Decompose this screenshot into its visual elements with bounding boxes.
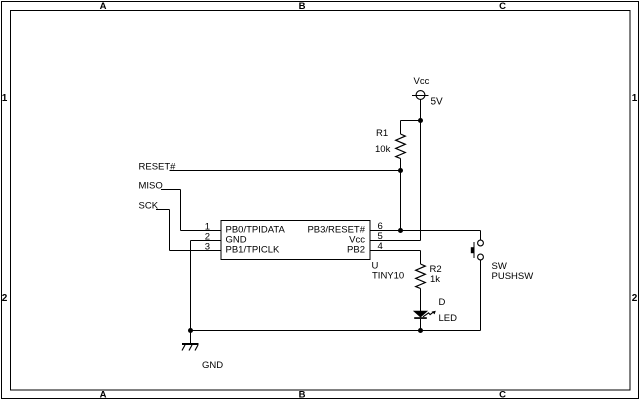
LED D <box>414 311 436 331</box>
resistor R1 <box>396 121 406 171</box>
svg-text:3: 3 <box>205 242 210 253</box>
wire pin 5 to Vcc <box>370 121 421 241</box>
wire RESET# down to pin 6 <box>400 171 402 231</box>
wire MISO to pin 1 <box>161 190 221 231</box>
svg-text:5V: 5V <box>431 97 444 108</box>
svg-text:1: 1 <box>632 93 638 104</box>
junction GND rail left <box>188 328 193 333</box>
svg-text:C: C <box>499 390 506 400</box>
svg-text:A: A <box>100 390 107 400</box>
junction R1 bottom / RESET# <box>398 168 403 173</box>
svg-text:1: 1 <box>2 93 8 104</box>
svg-text:D: D <box>439 297 446 308</box>
svg-text:PB1/TPICLK: PB1/TPICLK <box>226 245 281 256</box>
junction pin 6 / RESET# <box>398 228 403 233</box>
svg-text:GND: GND <box>202 360 223 371</box>
resistor R2 <box>416 264 426 311</box>
svg-text:RESET#: RESET# <box>139 162 177 173</box>
svg-text:B: B <box>299 1 306 12</box>
svg-text:B: B <box>299 390 306 400</box>
wire RESET# net horizontal <box>170 170 401 172</box>
svg-text:2: 2 <box>632 293 638 304</box>
svg-text:10k: 10k <box>375 144 391 155</box>
junction LED bottom <box>418 328 423 333</box>
wire pin 4 to R2 <box>370 251 421 265</box>
svg-text:PB2: PB2 <box>347 245 365 256</box>
svg-text:TINY10: TINY10 <box>372 271 404 282</box>
wire SCK to pin 3 <box>156 210 221 251</box>
svg-text:MISO: MISO <box>139 181 163 192</box>
IC U TINY10 body <box>221 221 370 260</box>
ground symbol <box>182 344 199 351</box>
svg-text:C: C <box>499 1 506 12</box>
svg-text:LED: LED <box>439 313 458 324</box>
wire pin 6 to switch <box>370 230 481 232</box>
svg-text:A: A <box>100 1 107 12</box>
svg-text:2: 2 <box>2 293 8 304</box>
svg-text:R1: R1 <box>376 128 388 139</box>
power symbol Vcc 5V <box>412 91 429 121</box>
svg-text:PUSHSW: PUSHSW <box>492 271 534 282</box>
svg-text:1k: 1k <box>430 274 440 285</box>
junction Vcc node <box>418 118 423 123</box>
svg-text:Vcc: Vcc <box>414 76 430 87</box>
wire pin 2 GND branch <box>191 241 222 344</box>
switch SW PUSHSW <box>471 231 484 331</box>
svg-text:SCK: SCK <box>139 201 159 212</box>
wire bottom ground rail <box>191 330 481 332</box>
wire Vcc top horizontal to R1 <box>401 120 421 122</box>
